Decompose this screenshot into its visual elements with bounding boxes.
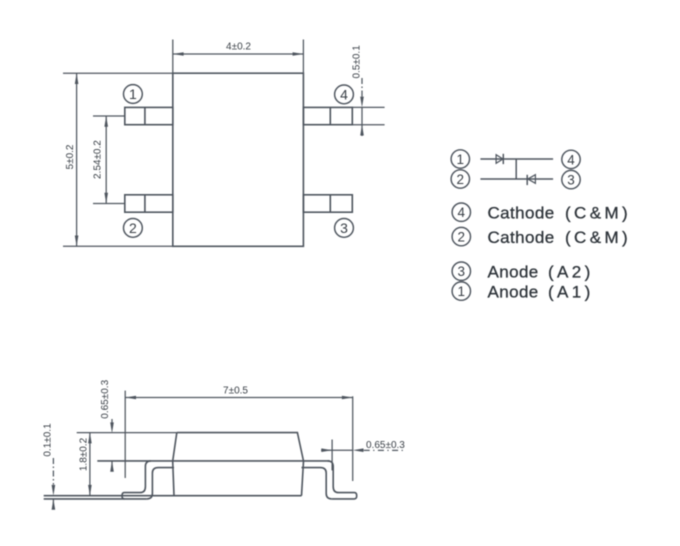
dimension 2.54±0.2 line: [105, 116, 107, 204]
schematic circle 4: [562, 150, 580, 168]
dimension 0.5±0.1 dash-dot upper: [361, 78, 363, 98]
diode D2 triangle: [528, 175, 536, 184]
arrow 4dim left: [173, 52, 184, 56]
svg-text:1: 1: [457, 152, 465, 167]
left lead inner contour: [147, 468, 174, 499]
extension line 7dim right: [352, 396, 354, 481]
label circle 4: [452, 203, 470, 221]
wire top: [480, 158, 553, 160]
extension line 7dim left: [124, 391, 126, 478]
svg-text:5±0.2: 5±0.2: [65, 144, 76, 169]
dimension 5±0.2 line: [76, 73, 78, 246]
svg-text:(C&M): (C&M): [565, 228, 631, 247]
svg-text:3: 3: [458, 264, 466, 279]
extension line 0.65 right short: [331, 440, 333, 471]
arrow 1.8 top: [88, 433, 92, 444]
extension line pin2 center: [93, 203, 125, 205]
arrow 0.65right toward left: [353, 448, 364, 452]
dimension 0.65 right dash-dot tail: [364, 449, 406, 451]
svg-text:3: 3: [340, 220, 348, 236]
dimension 0.65 right line: [321, 449, 353, 451]
pin 1 lead rectangle: [125, 107, 173, 124]
pin number circles top view: [123, 85, 353, 238]
svg-text:7±0.5: 7±0.5: [223, 385, 248, 396]
dimension 1.8±0.2 line: [89, 433, 91, 496]
extension line body bottom-left: [63, 245, 173, 247]
diode D1 triangle: [496, 155, 503, 164]
arrow 7dim right: [342, 396, 353, 400]
svg-text:2.54±0.2: 2.54±0.2: [92, 140, 103, 179]
label circle 3: [452, 262, 470, 280]
pin4 bottom extension line: [352, 124, 384, 126]
pin 2 lead divider: [144, 195, 146, 212]
schematic circle 2: [451, 170, 469, 188]
svg-text:2: 2: [458, 230, 466, 245]
schematic circle 1: [451, 150, 469, 168]
svg-text:1: 1: [458, 284, 466, 299]
pin 4 lead rectangle: [303, 107, 352, 124]
svg-text:(A2): (A2): [548, 262, 594, 281]
svg-text:0.1±0.1: 0.1±0.1: [43, 423, 54, 457]
wire link vertical: [515, 159, 517, 179]
svg-text:4: 4: [458, 205, 466, 220]
dimension 0.5±0.1 line through pin: [361, 107, 363, 124]
svg-text:Anode: Anode: [488, 262, 539, 281]
pin 4 lead divider: [329, 107, 331, 124]
arrow 0.65 left up: [110, 461, 114, 472]
svg-text:3: 3: [567, 173, 575, 188]
svg-text:(A1): (A1): [548, 282, 594, 301]
arrow 2.54 bottom: [104, 193, 108, 204]
extension body top left: [77, 432, 177, 434]
left foot bottom line extended: [44, 498, 147, 500]
arrow 0.65right toward right: [321, 448, 332, 452]
dimension 7±0.5 line: [125, 397, 353, 399]
pin 3 lead rectangle: [303, 195, 352, 212]
arrow 1.8 bottom: [88, 485, 92, 496]
left lead outer contour: [122, 461, 151, 499]
dimension 0.65 left dash-dot: [111, 419, 113, 423]
svg-text:(C&M): (C&M): [565, 203, 631, 222]
svg-text:Anode: Anode: [488, 282, 539, 301]
package body outline: [173, 73, 304, 246]
pin 3 lead divider: [329, 195, 331, 212]
arrow 5dim bottom: [75, 236, 79, 247]
tail 0.1 below: [52, 499, 54, 510]
svg-text:4±0.2: 4±0.2: [226, 41, 251, 52]
dimension 4±0.2 line: [173, 53, 304, 55]
circle pin2: [123, 219, 142, 238]
extension line body top-left: [63, 72, 173, 74]
circle pin1: [123, 85, 142, 104]
svg-text:4: 4: [340, 87, 348, 103]
svg-text:1: 1: [129, 86, 137, 102]
arrow 0.5 up: [360, 125, 364, 136]
dimension 0.1 dash-dot: [52, 458, 54, 485]
arrow 7dim left: [125, 396, 136, 400]
pin4 top extension line: [352, 106, 384, 108]
arrow 2.54 top: [104, 116, 108, 127]
schematic circle 3: [562, 170, 580, 188]
parting line with lead top surfaces: [97, 460, 329, 462]
label circle 1: [452, 282, 470, 300]
diode D1 cathode bar: [502, 154, 504, 164]
body side profile: [173, 433, 304, 496]
svg-text:1.8±0.2: 1.8±0.2: [79, 437, 90, 471]
extension line 4dim left: [172, 40, 174, 74]
arrow 0.1 down: [52, 485, 56, 496]
svg-text:Cathode: Cathode: [488, 228, 555, 247]
arrow 0.1 up: [52, 499, 56, 510]
svg-text:0.5±0.1: 0.5±0.1: [352, 45, 363, 79]
svg-text:4: 4: [567, 152, 575, 167]
label circle 2: [452, 227, 470, 245]
arrow 0.5 down: [360, 97, 364, 108]
svg-text:2: 2: [457, 172, 465, 187]
extension line 4dim right: [302, 40, 304, 74]
circle pin4: [335, 85, 354, 104]
arrow 4dim right: [293, 52, 304, 56]
arrow 5dim top: [75, 73, 79, 84]
dimension 0.5±0.1 tail below: [361, 125, 363, 136]
svg-text:0.65±0.3: 0.65±0.3: [366, 440, 405, 451]
extension line pin1 center: [93, 115, 125, 117]
arrow 0.65 left down: [110, 422, 114, 433]
body bottom line extended: [44, 495, 302, 497]
circle pin3: [335, 219, 354, 238]
pin 2 lead rectangle: [125, 195, 173, 212]
pin 1 lead divider: [144, 107, 146, 124]
wire bottom: [480, 178, 553, 180]
svg-text:Cathode: Cathode: [488, 203, 555, 222]
tail 0.65 left below arrow: [111, 461, 113, 471]
svg-text:2: 2: [129, 220, 137, 236]
svg-text:0.65±0.3: 0.65±0.3: [100, 379, 111, 418]
right lead outer contour: [328, 461, 357, 499]
right lead inner contour: [302, 468, 332, 499]
diode D2 cathode bar: [526, 175, 528, 185]
